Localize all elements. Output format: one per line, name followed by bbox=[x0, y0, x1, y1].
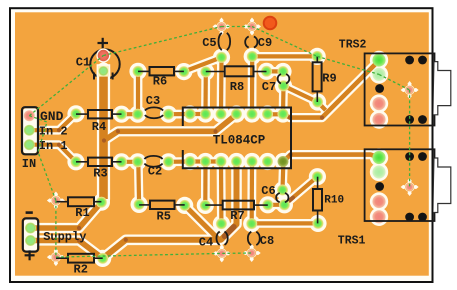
svg-text:C6: C6 bbox=[261, 184, 275, 198]
svg-text:GND: GND bbox=[40, 109, 64, 124]
svg-text:C9: C9 bbox=[258, 36, 272, 50]
svg-text:C4: C4 bbox=[199, 236, 213, 250]
svg-text:C3: C3 bbox=[146, 94, 160, 108]
svg-text:C7: C7 bbox=[262, 80, 276, 94]
svg-text:R10: R10 bbox=[324, 194, 344, 206]
svg-text:C1: C1 bbox=[76, 55, 90, 69]
svg-text:R5: R5 bbox=[157, 210, 171, 224]
svg-text:IN: IN bbox=[22, 157, 36, 171]
svg-text:R8: R8 bbox=[230, 80, 244, 94]
svg-text:R3: R3 bbox=[93, 166, 107, 180]
svg-text:TRS1: TRS1 bbox=[338, 234, 366, 247]
svg-text:R4: R4 bbox=[92, 120, 106, 134]
svg-text:C2: C2 bbox=[148, 165, 162, 179]
svg-text:In 1: In 1 bbox=[39, 139, 68, 153]
svg-text:C5: C5 bbox=[202, 36, 216, 50]
svg-text:R2: R2 bbox=[74, 263, 88, 277]
svg-text:R6: R6 bbox=[153, 75, 167, 89]
svg-text:Supply: Supply bbox=[43, 230, 86, 244]
svg-text:TRS2: TRS2 bbox=[339, 38, 367, 51]
svg-text:R1: R1 bbox=[75, 206, 89, 220]
svg-text:R7: R7 bbox=[230, 209, 244, 223]
svg-text:TL084CP: TL084CP bbox=[213, 133, 266, 147]
svg-text:R9: R9 bbox=[322, 71, 336, 85]
svg-text:C8: C8 bbox=[260, 234, 274, 248]
